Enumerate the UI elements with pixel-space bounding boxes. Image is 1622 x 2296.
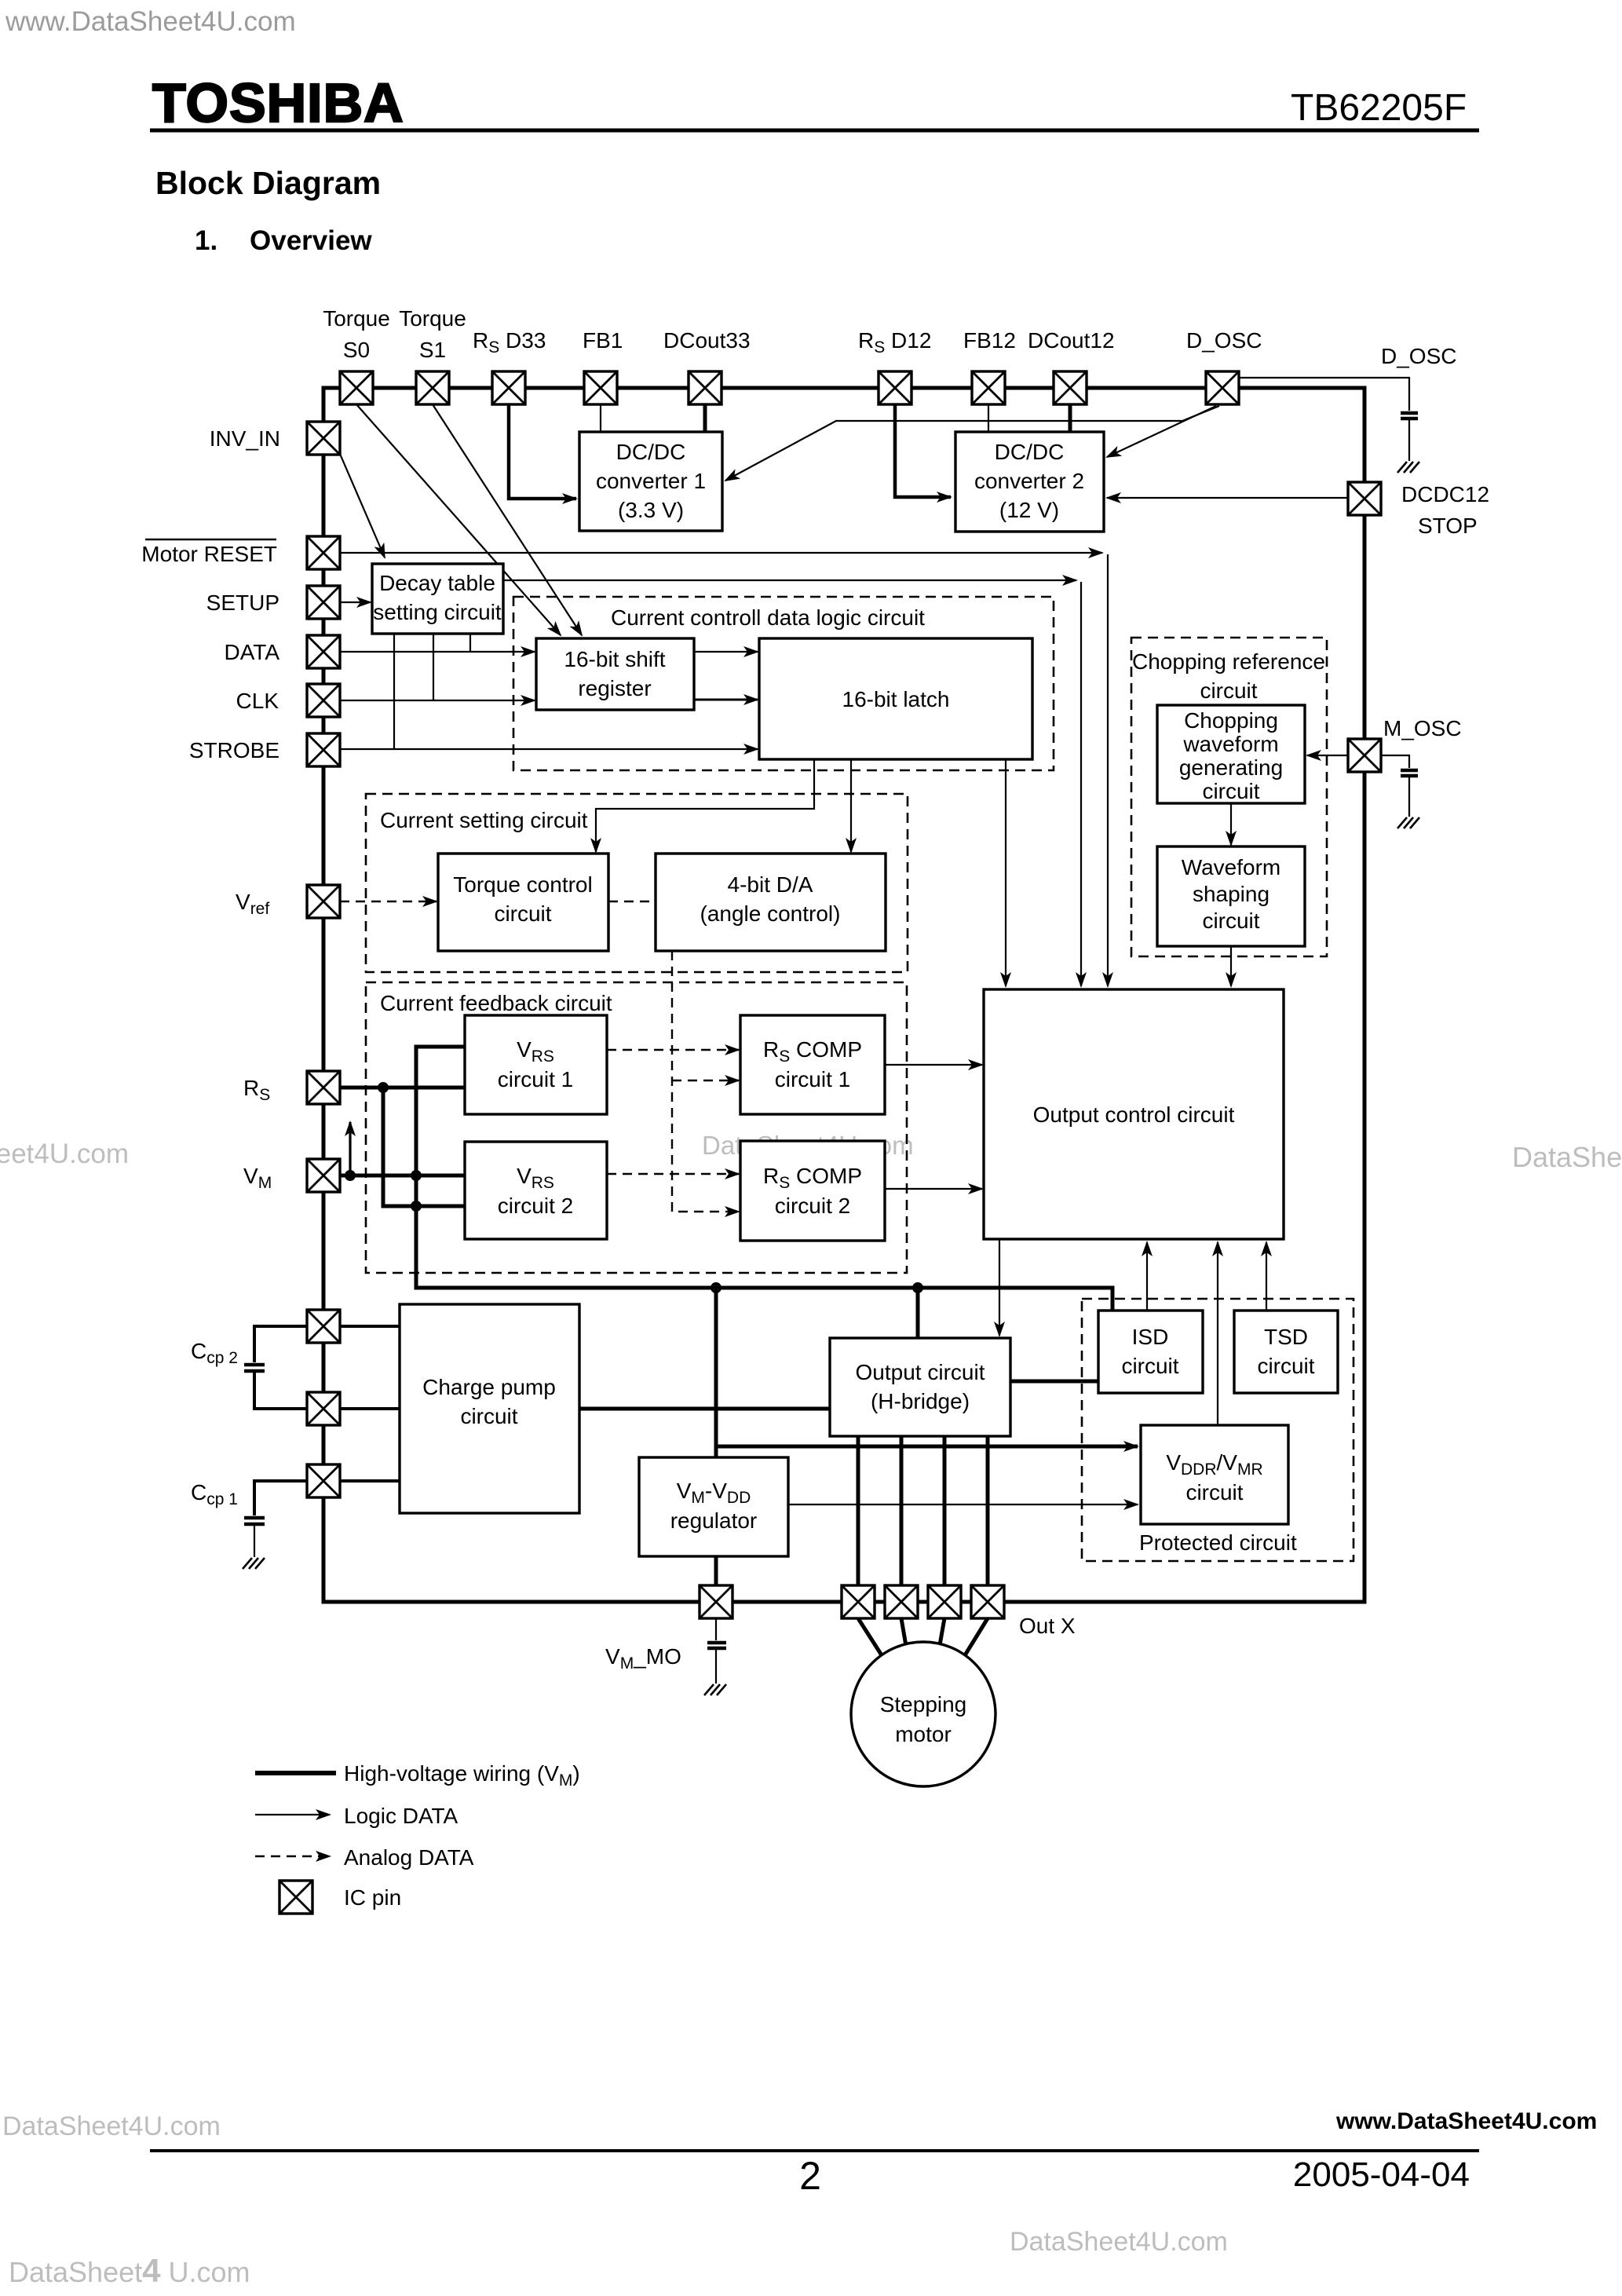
- svg-text:Torque: Torque: [323, 306, 390, 331]
- IC pin Out 1: [842, 1585, 875, 1618]
- legend high-voltage wiring: [255, 1761, 580, 1790]
- stepping motor: [851, 1642, 995, 1786]
- wire: H-bridge output 1 (high voltage): [857, 1436, 860, 1585]
- svg-text:Torque control: Torque control: [453, 872, 592, 897]
- wire: H-bridge output 2 (high voltage): [900, 1436, 904, 1585]
- svg-text:Waveform: Waveform: [1182, 855, 1281, 879]
- capacitor Ccp2: [244, 1365, 265, 1371]
- ground at VM_MO: [704, 1684, 726, 1695]
- svg-text:circuit 2: circuit 2: [498, 1194, 573, 1218]
- wire: D_OSC to DC/DC converter 1: [725, 406, 1219, 481]
- svg-text:circuit: circuit: [494, 901, 551, 926]
- wire: shift register to latch (upper): [694, 651, 758, 653]
- svg-text:S1: S1: [419, 338, 446, 362]
- wire: Out pin 1 to stepping motor: [858, 1618, 882, 1655]
- wire: VM rail to VM-VDD regulator (high voltage): [714, 1288, 718, 1457]
- svg-text:Stepping: Stepping: [880, 1692, 967, 1717]
- svg-text:STROBE: STROBE: [189, 738, 279, 762]
- wire: M_OSC to external capacitor: [1381, 755, 1409, 768]
- wire: VM arrow up from VM line: [349, 1122, 351, 1173]
- svg-text:Protected circuit: Protected circuit: [1139, 1530, 1297, 1555]
- block Output control circuit: [984, 989, 1284, 1239]
- svg-text:motor: motor: [895, 1722, 952, 1746]
- wire: RS COMP circuit 2 to Output control circuit: [885, 1188, 982, 1190]
- dashed box Protected circuit: [1082, 1299, 1353, 1561]
- wire: Ccp1 capacitor leg: [254, 1481, 307, 1515]
- block RS COMP circuit 2: [740, 1141, 885, 1241]
- junction dot VM rail to regulator: [711, 1282, 721, 1293]
- svg-text:DC/DC: DC/DC: [995, 440, 1065, 464]
- block VM-VDD regulator: [639, 1457, 788, 1556]
- svg-text:regulator: regulator: [670, 1508, 758, 1533]
- svg-text:High-voltage wiring (VM): High-voltage wiring (VM): [344, 1761, 580, 1790]
- IC pin Out 2: [885, 1585, 918, 1618]
- IC pin S0: [340, 371, 373, 404]
- svg-text:setting circuit: setting circuit: [373, 600, 502, 624]
- dashed box Current setting circuit: [366, 794, 908, 972]
- wire: ISD circuit up to Output control circuit: [1146, 1242, 1148, 1311]
- junction dot VRS2 lower input: [411, 1201, 422, 1212]
- svg-text:Output circuit: Output circuit: [856, 1360, 985, 1384]
- wire: latch to Output control circuit: [1005, 759, 1006, 986]
- block ISD circuit: [1098, 1311, 1203, 1393]
- wire: TSD circuit up to Output control circuit: [1266, 1242, 1267, 1311]
- wire: RS branch down to VRS circuit 2 (high voltage): [383, 1088, 465, 1206]
- svg-text:Logic DATA: Logic DATA: [344, 1804, 458, 1828]
- wire: SETUP to Decay table: [340, 601, 371, 603]
- svg-text:Analog DATA: Analog DATA: [344, 1845, 474, 1870]
- svg-text:IC pin: IC pin: [344, 1885, 401, 1910]
- svg-text:(12 V): (12 V): [999, 498, 1059, 522]
- capacitor at D_OSC: [1401, 413, 1418, 419]
- svg-text:circuit: circuit: [1185, 1480, 1243, 1504]
- IC pin Vref: [307, 885, 340, 918]
- svg-text:Current feedback circuit: Current feedback circuit: [380, 991, 612, 1015]
- svg-text:FB1: FB1: [583, 328, 623, 353]
- svg-text:Chopping: Chopping: [1184, 708, 1278, 733]
- svg-text:RS D12: RS D12: [858, 328, 931, 356]
- block VDDR/VMR circuit: [1141, 1425, 1288, 1524]
- svg-text:circuit: circuit: [1202, 779, 1259, 803]
- wire: regulator to VDDR/VMR circuit: [788, 1504, 1138, 1505]
- IC boundary bus (VM wiring loop): [323, 388, 1364, 1602]
- junction dot VM rail to H-bridge: [912, 1282, 923, 1293]
- wire: Waveform shaping to Output control circuit: [1230, 946, 1232, 986]
- wire: DCout12 to DC/DC converter 2: [1069, 404, 1072, 432]
- wire: Motor RESET to DC/DC converter 2 bottom: [340, 553, 1108, 986]
- svg-text:Block Diagram: Block Diagram: [155, 165, 381, 201]
- block VRS circuit 2: [465, 1142, 607, 1239]
- block RS COMP circuit 1: [740, 1015, 885, 1114]
- wire: VM_MO capacitor to ground: [715, 1650, 717, 1684]
- svg-text:DataSheet4U.com: DataSheet4U.com: [2, 2111, 221, 2141]
- svg-text:M_OSC: M_OSC: [1383, 716, 1462, 740]
- svg-text:STOP: STOP: [1418, 514, 1478, 538]
- legend IC pin: [279, 1881, 401, 1914]
- IC pin Ccp2 lower: [307, 1392, 340, 1425]
- IC pin DCout33: [689, 371, 721, 404]
- svg-text:(angle control): (angle control): [700, 901, 841, 926]
- IC pin RS D12: [879, 371, 911, 404]
- block TSD circuit: [1234, 1311, 1338, 1393]
- IC pin STROBE: [307, 733, 340, 766]
- block Charge pump circuit: [400, 1304, 579, 1513]
- legend analog data arrow: [255, 1845, 474, 1870]
- svg-text:generating: generating: [1179, 755, 1283, 780]
- IC pin DATA: [307, 635, 340, 668]
- svg-text:DataSheet4 U.com: DataSheet4 U.com: [9, 2252, 250, 2289]
- svg-text:DataSheet4U.com: DataSheet4U.com: [1010, 2227, 1228, 2257]
- wire: VRS circuit 1 to RS COMP circuit 1 (analog dashed): [607, 1049, 739, 1051]
- svg-text:RS COMP: RS COMP: [763, 1164, 862, 1192]
- ground at D_OSC capacitor: [1397, 462, 1419, 473]
- junction dot RS/VRS1: [378, 1082, 389, 1093]
- wire: Decay table stub to STROBE line: [393, 634, 395, 749]
- block 4-bit D/A (angle control): [656, 854, 886, 951]
- capacitor at VM_MO: [707, 1643, 726, 1648]
- dashed box Current controll data logic circuit: [513, 597, 1054, 770]
- block DC/DC converter 2: [955, 432, 1104, 532]
- svg-text:Out X: Out X: [1019, 1614, 1076, 1638]
- svg-text:www.DataSheet4U.com: www.DataSheet4U.com: [1335, 2108, 1597, 2134]
- svg-text:2005-04-04: 2005-04-04: [1293, 2155, 1470, 2194]
- label DCDC12 STOP: [1401, 482, 1489, 538]
- wire: latch to Torque control circuit: [596, 759, 814, 852]
- junction dot VM line / VM rail: [411, 1170, 422, 1181]
- svg-text:INV_IN: INV_IN: [210, 426, 280, 451]
- wire: branch of D/A dashed line to RS COMP circuit 1: [672, 1080, 739, 1081]
- wire: VM rail to VRS circuit 1 / ISD circuit (high voltage): [416, 1047, 1112, 1311]
- wire: latch to 4-bit D/A: [850, 759, 852, 852]
- svg-text:TB62205F: TB62205F: [1291, 87, 1467, 129]
- svg-text:DC/DC: DC/DC: [616, 440, 686, 464]
- svg-text:SETUP: SETUP: [206, 590, 279, 615]
- wire: Ccp pin 3 to charge pump: [341, 1479, 400, 1483]
- wire: VM rail to Output circuit H-bridge (high voltage): [916, 1288, 920, 1338]
- wire: capacitor to ground: [1408, 420, 1410, 461]
- footer rule: [150, 2149, 1479, 2152]
- svg-text:waveform: waveform: [1182, 732, 1278, 756]
- block Decay table setting circuit: [372, 564, 503, 634]
- wire: Ccp2 capacitor lower leg: [254, 1373, 307, 1409]
- block Torque control circuit: [438, 854, 608, 951]
- wire: Ccp pin 1 to charge pump: [341, 1325, 400, 1328]
- svg-text:(3.3 V): (3.3 V): [618, 498, 684, 522]
- block Chopping waveform generating circuit: [1157, 705, 1305, 803]
- IC pin Ccp2 upper: [307, 1310, 340, 1343]
- wire: STROBE to 16-bit latch: [340, 748, 758, 750]
- wire: VM to VDDR/VMR circuit (high voltage): [716, 1445, 1138, 1449]
- dashed box Chopping reference circuit: [1131, 638, 1327, 956]
- wire: Decay table to Output control circuit: [503, 580, 1081, 986]
- svg-text:circuit 1: circuit 1: [775, 1067, 850, 1091]
- svg-text:Decay table: Decay table: [379, 571, 495, 595]
- IC pin RS: [307, 1071, 340, 1104]
- wire: Ccp pin 2 to charge pump: [341, 1407, 400, 1410]
- wire: DCDC12 STOP to DC/DC converter 2: [1107, 497, 1348, 499]
- IC pin CLK: [307, 684, 340, 717]
- svg-text:RS COMP: RS COMP: [763, 1037, 862, 1066]
- svg-text:D_OSC: D_OSC: [1186, 328, 1262, 353]
- header rule: [150, 129, 1479, 133]
- wire: M_OSC to Chopping waveform generating circuit: [1307, 755, 1348, 756]
- IC pin VM_MO: [700, 1585, 732, 1618]
- wire: RS D12 to DC/DC converter 2: [895, 404, 951, 497]
- svg-text:(H-bridge): (H-bridge): [871, 1389, 970, 1413]
- label Torque S0: [323, 306, 390, 362]
- wire: H-bridge output 3 (high voltage): [943, 1436, 947, 1585]
- svg-text:converter 2: converter 2: [974, 469, 1084, 493]
- wire: INV_IN to Decay table (diagonal): [340, 454, 385, 558]
- svg-text:DCDC12: DCDC12: [1401, 482, 1489, 506]
- svg-text:DataSheet4U.com: DataSheet4U.com: [1512, 1141, 1622, 1173]
- IC pin D_OSC: [1206, 371, 1239, 404]
- svg-text:Output control circuit: Output control circuit: [1033, 1102, 1235, 1127]
- wire: Out pin 3 to stepping motor: [940, 1618, 944, 1645]
- wire: FB1 to DC/DC converter 1: [600, 404, 601, 432]
- junction dot VM line at arrow: [345, 1170, 356, 1181]
- wire: Chopping waveform generating to Waveform shaping: [1230, 803, 1232, 845]
- IC pin RS D33: [492, 371, 525, 404]
- svg-text:circuit: circuit: [1257, 1354, 1314, 1378]
- svg-text:circuit: circuit: [1121, 1354, 1178, 1378]
- wire: Decay table stub to CLK line: [433, 634, 434, 700]
- wire: RS D33 to DC/DC converter 1: [509, 404, 576, 499]
- svg-text:16-bit latch: 16-bit latch: [842, 687, 950, 711]
- wire: Out pin 2 to stepping motor: [901, 1618, 906, 1646]
- wire: VM-VDD regulator to VM_MO pin (high voltage): [714, 1556, 718, 1585]
- wire: VM pin to VRS circuit 2 (high voltage): [340, 1174, 465, 1178]
- svg-text:VM_MO: VM_MO: [605, 1644, 681, 1673]
- wire: DATA to 16-bit shift register: [340, 651, 535, 653]
- svg-text:circuit: circuit: [460, 1404, 517, 1428]
- wire: Decay table stub to DATA line: [469, 634, 471, 652]
- wire: Ccp2 capacitor loop between pins: [254, 1326, 307, 1362]
- label Motor RESET with overline: [141, 539, 277, 566]
- wire: Torque S1 to 16-bit shift register (diagonal): [433, 404, 582, 635]
- ground at Ccp1: [243, 1558, 265, 1569]
- svg-text:S0: S0: [343, 338, 370, 362]
- svg-text:converter 1: converter 1: [596, 469, 706, 493]
- wire: Torque control to 4-bit D/A (analog dashed): [608, 901, 656, 902]
- svg-text:DCout12: DCout12: [1028, 328, 1115, 353]
- wire: shift register to latch (lower): [694, 699, 758, 701]
- block Waveform shaping circuit: [1157, 846, 1305, 946]
- wire: D_OSC to DC/DC converter 2 (diagonal): [1107, 406, 1216, 457]
- wire: D_OSC to external capacitor: [1239, 378, 1409, 411]
- wire: VM_MO pin to capacitor: [715, 1618, 717, 1640]
- wire: H-bridge output 4 (high voltage): [986, 1436, 990, 1585]
- svg-text:circuit 2: circuit 2: [775, 1194, 850, 1218]
- wire: Output control circuit to H-bridge: [999, 1239, 1000, 1336]
- wire: Torque S0 to 16-bit shift register (diagonal): [356, 404, 561, 635]
- svg-text:CLK: CLK: [236, 689, 279, 713]
- IC pin FB1: [584, 371, 617, 404]
- IC pin VM: [307, 1159, 340, 1192]
- IC pin S1: [416, 371, 449, 404]
- IC pin M_OSC: [1348, 739, 1381, 772]
- svg-text:shaping: shaping: [1193, 882, 1269, 906]
- wire: RS pin to VRS circuit 1 (high voltage): [340, 1086, 465, 1090]
- block VRS circuit 1: [465, 1015, 607, 1114]
- ground at M_OSC capacitor: [1397, 817, 1419, 828]
- wire: Out pin 4 to stepping motor: [965, 1618, 988, 1655]
- IC pin FB12: [972, 371, 1005, 404]
- IC pin Out 4: [971, 1585, 1004, 1618]
- block 16-bit shift register: [536, 638, 694, 710]
- wire: Ccp1 capacitor to ground: [254, 1526, 255, 1557]
- svg-text:D_OSC: D_OSC: [1381, 344, 1456, 368]
- IC pin Out 3: [928, 1585, 961, 1618]
- svg-text:RS D33: RS D33: [473, 328, 546, 356]
- IC pin Motor RESET: [307, 536, 340, 569]
- wire: FB12 to DC/DC converter 2: [988, 404, 989, 432]
- svg-text:DCout33: DCout33: [663, 328, 751, 353]
- svg-text:circuit: circuit: [1202, 909, 1259, 933]
- IC pin DCDC12 STOP: [1348, 482, 1381, 515]
- wire: 4-bit D/A down to RS COMP circuits (analog dashed): [672, 951, 739, 1212]
- svg-text:Charge pump: Charge pump: [422, 1375, 556, 1399]
- wire: VRS circuit 2 to RS COMP circuit 2 (analog dashed): [607, 1173, 739, 1175]
- wire: charge pump output to H-bridge (high voltage): [579, 1407, 830, 1411]
- capacitor at M_OSC: [1401, 770, 1418, 776]
- svg-text:circuit 1: circuit 1: [498, 1067, 573, 1091]
- svg-text:Current controll data logic ci: Current controll data logic circuit: [611, 605, 925, 630]
- svg-text:www.DataSheet4U.com: www.DataSheet4U.com: [5, 6, 296, 37]
- svg-text:FB12: FB12: [963, 328, 1016, 353]
- IC pin Ccp1: [307, 1464, 340, 1497]
- IC pin SETUP: [307, 586, 340, 619]
- svg-text:ISD: ISD: [1132, 1325, 1169, 1349]
- legend logic data arrow: [255, 1804, 458, 1828]
- svg-text:2: 2: [799, 2154, 821, 2198]
- dashed box Current feedback circuit: [366, 982, 907, 1273]
- IC pin DCout12: [1054, 371, 1087, 404]
- svg-text:TSD: TSD: [1264, 1325, 1308, 1349]
- wire: H-bridge to ISD circuit (high voltage): [1010, 1380, 1098, 1384]
- svg-text:Overview: Overview: [250, 225, 372, 256]
- svg-text:DataSheet4U.com: DataSheet4U.com: [0, 1139, 129, 1169]
- wire: VDDR/VMR circuit up to Output control circuit: [1217, 1242, 1218, 1425]
- wire: DCout33 to DC/DC converter 1: [703, 404, 707, 432]
- svg-text:Current setting circuit: Current setting circuit: [380, 808, 588, 832]
- wire: RS COMP circuit 1 to Output control circuit: [885, 1064, 982, 1066]
- wire: Vref to Torque control (analog dashed): [340, 901, 437, 902]
- svg-text:TOSHIBA: TOSHIBA: [152, 72, 404, 133]
- svg-text:16-bit shift: 16-bit shift: [564, 647, 665, 671]
- svg-text:1.: 1.: [195, 225, 217, 256]
- svg-text:Chopping reference: Chopping reference: [1132, 649, 1325, 674]
- block DC/DC converter 1: [579, 432, 722, 531]
- wire: CLK to 16-bit shift register: [340, 700, 535, 701]
- IC pin INV_IN: [307, 422, 340, 455]
- block 16-bit latch: [759, 638, 1032, 759]
- svg-text:4-bit D/A: 4-bit D/A: [728, 872, 813, 897]
- svg-text:Motor RESET: Motor RESET: [141, 542, 277, 566]
- capacitor Ccp1: [244, 1518, 265, 1524]
- block Output circuit (H-bridge): [830, 1338, 1010, 1436]
- label Torque S1: [399, 306, 466, 362]
- svg-text:DATA: DATA: [224, 640, 279, 664]
- svg-text:Torque: Torque: [399, 306, 466, 331]
- svg-text:register: register: [578, 676, 651, 700]
- svg-text:circuit: circuit: [1200, 678, 1257, 703]
- wire: M_OSC capacitor to ground: [1408, 777, 1410, 817]
